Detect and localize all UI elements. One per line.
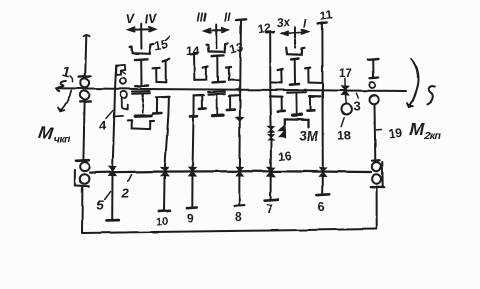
- shift fork V-IV arrow: [129, 24, 155, 49]
- svg-text:9: 9: [187, 212, 194, 226]
- gear column 11 line: [318, 22, 327, 194]
- label V: [125, 11, 136, 27]
- shift fork III-II arrow: [205, 25, 228, 49]
- svg-text:16: 16: [277, 148, 292, 164]
- label 18 pointer: [342, 118, 345, 127]
- bearing input cap bottom: [80, 100, 91, 103]
- label 16: [277, 148, 292, 164]
- label 9: [187, 212, 194, 226]
- svg-text:8: 8: [235, 210, 242, 224]
- label I: [303, 19, 307, 31]
- junction countershaft x112: [108, 167, 116, 176]
- bearing left countershaft box: [75, 160, 89, 186]
- gear bracket below shaft group2 left: [194, 95, 206, 109]
- svg-text:5: 5: [97, 198, 105, 213]
- node shaft break squiggle left: [57, 81, 66, 91]
- label 13: [228, 40, 245, 57]
- junction countershaft x322: [319, 167, 327, 176]
- bearing left countershaft circle lower: [80, 174, 90, 184]
- gear column 13 line: [236, 19, 246, 205]
- svg-text:11: 11: [319, 8, 334, 24]
- junction marks on column12: [268, 127, 274, 141]
- wire gear10 column: [164, 115, 168, 211]
- svg-text:13: 13: [228, 40, 245, 57]
- gear below shaft group2 center (double bar T): [208, 92, 225, 116]
- bearing left countershaft circle upper: [80, 162, 89, 171]
- label 19 pointer: [376, 129, 381, 131]
- bearing right countershaft circle upper: [372, 162, 381, 171]
- chevron marks reverse slide: [278, 125, 285, 138]
- gear bracket below shaft group2 right: [227, 95, 240, 110]
- rotation arrow right: [408, 59, 419, 108]
- gear9 column foot: [190, 115, 197, 118]
- svg-text:3x: 3x: [275, 15, 291, 30]
- junction countershaft x192: [188, 167, 196, 176]
- label 12: [257, 20, 272, 36]
- wire left support line: [83, 35, 89, 159]
- label 1 pointer arc: [70, 76, 73, 82]
- bearing input circle upper: [80, 78, 89, 87]
- gear below shaft group3 center (double bar T): [287, 90, 307, 116]
- clutch 4 hook below: [114, 99, 128, 117]
- shift fork 3X-I sleeve cup: [286, 48, 304, 55]
- label 3: [354, 99, 361, 114]
- gear below shaft group1 center (double bar T): [132, 91, 151, 116]
- svg-text:2кп: 2кп: [424, 130, 442, 142]
- svg-text:IV: IV: [144, 11, 159, 27]
- gear column 5 line (clutch shaft): [112, 66, 116, 220]
- svg-text:19: 19: [388, 126, 403, 141]
- label 17: [339, 68, 352, 80]
- svg-text:M: M: [37, 122, 55, 144]
- svg-text:3M: 3M: [299, 129, 319, 144]
- clutch 4 circle above shaft: [120, 78, 126, 84]
- label 18: [337, 129, 351, 143]
- label M2kp: [410, 119, 442, 142]
- gear bracket below shaft group3 right: [308, 96, 321, 111]
- label 4: [99, 118, 107, 133]
- gear 15 wheel above shaft (I shape): [135, 59, 148, 86]
- reverse gear 3M wide bracket: [285, 119, 309, 127]
- bearing right countershaft box: [370, 160, 384, 187]
- rotation arrow left: [58, 91, 71, 112]
- wire bottom frame line: [82, 229, 377, 233]
- gear 9 bottom cap: [187, 206, 197, 209]
- label 3M: [299, 129, 319, 144]
- svg-text:II: II: [224, 13, 231, 25]
- gear 10 bottom cap: [159, 210, 171, 213]
- svg-text:10: 10: [156, 215, 169, 228]
- bearing input circle lower: [80, 91, 89, 100]
- gear U right of 15: [153, 59, 170, 83]
- gear above shaft group2 center (I shape): [212, 56, 225, 83]
- label 7: [266, 202, 273, 216]
- label 1: [60, 64, 72, 81]
- svg-text:7: 7: [266, 202, 273, 216]
- shift fork 3X-I arrow: [282, 27, 307, 48]
- gear 7 bottom cap: [265, 199, 278, 202]
- svg-text:14: 14: [186, 44, 200, 58]
- label 19: [388, 126, 403, 141]
- wire junction to circle18: [344, 95, 347, 104]
- label 6: [318, 199, 325, 214]
- gear 14 U above shaft: [191, 54, 208, 80]
- label 10: [156, 215, 169, 228]
- svg-text:18: 18: [337, 129, 351, 143]
- wire gear9 column: [192, 95, 193, 207]
- gear above shaft group3 center (I shape): [290, 59, 299, 85]
- gear 13 U above shaft: [226, 67, 240, 80]
- label 4 pointer: [106, 110, 113, 118]
- svg-text:6: 6: [318, 199, 325, 214]
- junction countershaft x270: [267, 167, 275, 176]
- svg-text:17: 17: [339, 68, 352, 80]
- svg-text:чкп: чкп: [54, 134, 71, 146]
- gear U above shaft group3 left: [270, 69, 282, 83]
- label M1kp: [37, 122, 71, 146]
- label 3 pointer: [356, 93, 358, 98]
- gear 6 bottom cap: [317, 193, 330, 196]
- wire main input shaft: [56, 88, 406, 91]
- bearing right countershaft circle lower: [372, 174, 381, 183]
- clutch 4 box above shaft: [116, 65, 125, 75]
- wire right frame riser: [376, 188, 378, 229]
- label 8: [235, 210, 242, 224]
- wire countershaft: [90, 171, 372, 172]
- wire left frame riser: [81, 186, 83, 233]
- label 11: [319, 8, 334, 24]
- svg-text:2: 2: [121, 186, 130, 201]
- label 3X: [275, 15, 291, 30]
- gear bracket below shaft group3 left: [270, 96, 285, 111]
- label 17 pointer: [344, 78, 346, 85]
- gear 5 bottom cap: [107, 219, 119, 222]
- bearing input cap top: [79, 75, 91, 78]
- label IV: [144, 11, 159, 27]
- svg-text:M: M: [410, 119, 425, 139]
- svg-text:4: 4: [99, 118, 107, 133]
- svg-text:III: III: [197, 13, 207, 25]
- junction countershaft x164: [161, 167, 169, 176]
- svg-text:V: V: [125, 11, 136, 27]
- gear bracket below shaft group1 right: [153, 97, 170, 115]
- svg-text:3: 3: [354, 99, 361, 114]
- clutch 4 circle below shaft: [121, 91, 128, 98]
- label 14: [186, 44, 200, 58]
- node shaft break squiggle right: [427, 86, 435, 104]
- shift fork III-II sleeve cup: [206, 43, 228, 52]
- gear cup open-top below group1: [128, 121, 154, 129]
- junction mark 17 on shaft: [342, 86, 349, 95]
- gear column 12 line: [266, 32, 274, 200]
- gear output wheel above shaft (I shape): [368, 59, 378, 78]
- label 15: [153, 36, 169, 53]
- gear U above shaft group3 right: [305, 68, 322, 83]
- label II: [224, 13, 231, 25]
- gear 8 bottom cap: [235, 204, 244, 207]
- svg-text:I: I: [303, 19, 307, 31]
- coupling small circle above shaft: [369, 82, 375, 88]
- label III: [197, 13, 207, 25]
- label 5: [97, 192, 111, 213]
- junction countershaft x239: [235, 167, 243, 176]
- label 2: [121, 175, 132, 201]
- coupling circle 19 below shaft: [370, 95, 379, 104]
- svg-text:12: 12: [257, 20, 272, 36]
- wire output vertical to bearing: [374, 104, 377, 161]
- junction mark on column13 foot: [236, 117, 243, 121]
- svg-text:1: 1: [60, 64, 72, 81]
- coupling circle 18: [342, 104, 352, 114]
- shift fork V-IV sleeve cup: [130, 44, 154, 54]
